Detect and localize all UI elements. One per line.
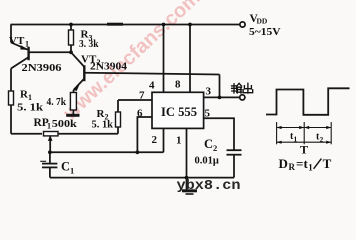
svg-text:VT: VT bbox=[9, 35, 25, 47]
label RP1 bbox=[34, 117, 52, 131]
wire pin 6 bbox=[137, 117, 152, 152]
svg-text:1: 1 bbox=[25, 40, 29, 49]
svg-text:=: = bbox=[296, 156, 303, 171]
wire VT1 base bbox=[29, 51, 71, 53]
dimension arrow t2 bbox=[304, 126, 331, 129]
node dot output bbox=[218, 96, 222, 100]
capacitor C1 bbox=[40, 152, 57, 177]
svg-text:2: 2 bbox=[213, 143, 217, 153]
svg-text:3. 3k: 3. 3k bbox=[79, 39, 99, 50]
svg-text:D: D bbox=[279, 156, 288, 171]
svg-text:C: C bbox=[204, 137, 213, 151]
wire pin 4 drop bbox=[163, 25, 165, 93]
transistor VT2 2N3904 bbox=[71, 52, 84, 92]
svg-text:2N3904: 2N3904 bbox=[90, 62, 128, 73]
dimension arrow t1 bbox=[277, 126, 305, 129]
potentiometer RP1 500k bbox=[44, 132, 59, 153]
svg-text:3: 3 bbox=[206, 86, 212, 98]
node dot rail pin8 bbox=[188, 23, 192, 27]
terminal VDD circle bbox=[240, 22, 245, 27]
node dot pin6 bus bbox=[136, 150, 140, 154]
wire rail thick segment bbox=[107, 23, 123, 26]
wire R1 to pot bbox=[11, 133, 42, 135]
node dot wiper bus bbox=[48, 150, 52, 154]
svg-text:5. 1k: 5. 1k bbox=[17, 103, 43, 114]
node dot base bbox=[69, 50, 73, 54]
dimension tick 2 bbox=[303, 122, 305, 144]
label t2 bbox=[316, 132, 324, 145]
label R2 bbox=[97, 108, 109, 122]
label t1 bbox=[290, 131, 298, 144]
svg-text:C: C bbox=[61, 160, 70, 174]
wire pin 7 bbox=[118, 99, 152, 101]
label C1 bbox=[61, 160, 74, 176]
op-amp IC 555 box bbox=[152, 92, 204, 128]
node dot rail R3 bbox=[69, 23, 73, 27]
resistor R2 bbox=[116, 100, 121, 134]
wire pin 3 output bbox=[204, 96, 240, 98]
wire top VDD rail bbox=[11, 24, 241, 26]
svg-text:5. 1k: 5. 1k bbox=[92, 120, 114, 131]
svg-text:500k: 500k bbox=[52, 119, 77, 130]
formula DR = t1/T bbox=[279, 156, 332, 173]
wire collector to output node bbox=[219, 75, 221, 98]
svg-text:1: 1 bbox=[70, 166, 74, 176]
label R3 bbox=[81, 29, 93, 43]
svg-text:1: 1 bbox=[28, 93, 32, 102]
wire trigger bus bbox=[50, 151, 164, 153]
svg-text:T: T bbox=[300, 143, 308, 157]
svg-text:4. 7k: 4. 7k bbox=[47, 97, 67, 108]
svg-text:ybx8.cn: ybx8.cn bbox=[177, 179, 241, 194]
svg-text:7: 7 bbox=[139, 89, 145, 101]
label R1 bbox=[20, 89, 32, 103]
svg-text:4: 4 bbox=[149, 80, 155, 92]
svg-text:2: 2 bbox=[152, 134, 158, 146]
svg-text:IC 555: IC 555 bbox=[161, 104, 197, 119]
svg-text:T: T bbox=[323, 156, 332, 171]
dimension tick 1 bbox=[276, 122, 278, 144]
svg-text:1: 1 bbox=[176, 135, 182, 147]
resistor R1 bbox=[9, 69, 14, 134]
resistor 4.7k bbox=[70, 93, 76, 115]
svg-text:R: R bbox=[289, 162, 296, 172]
ground under 4.7k bbox=[66, 114, 79, 117]
label C2 bbox=[204, 137, 217, 153]
node dot pin1 ground bbox=[185, 176, 189, 180]
dimension tick 3 bbox=[330, 122, 332, 144]
label VT2 bbox=[81, 54, 101, 68]
capacitor C2 bbox=[227, 150, 242, 177]
label VDD bbox=[249, 13, 281, 38]
svg-text:0.01μ: 0.01μ bbox=[195, 156, 219, 167]
wire pot to R2 bbox=[59, 133, 118, 135]
wire pin 1 bbox=[186, 128, 188, 191]
label VT1 bbox=[9, 35, 29, 49]
label shuchu output bbox=[232, 83, 253, 93]
svg-text:1: 1 bbox=[308, 162, 313, 172]
svg-text:DD: DD bbox=[257, 16, 268, 25]
wire ground bus bbox=[50, 177, 234, 179]
waveform square wave bbox=[266, 88, 350, 115]
svg-text:8: 8 bbox=[175, 79, 181, 91]
svg-text:2N3906: 2N3906 bbox=[22, 63, 62, 74]
wire pin 8 drop bbox=[189, 25, 191, 93]
transistor VT1 2N3906 bbox=[11, 25, 29, 69]
wire pin 5 bbox=[204, 118, 234, 150]
svg-text:1: 1 bbox=[47, 122, 51, 131]
resistor R3 bbox=[69, 25, 74, 53]
svg-text:5~15V: 5~15V bbox=[249, 27, 281, 38]
wire VT2 collector bus bbox=[84, 73, 219, 75]
ground symbol pin1 bbox=[182, 191, 197, 194]
dimension arrow T bbox=[277, 141, 332, 144]
terminal output circle bbox=[240, 95, 245, 100]
wire pin 2 bbox=[163, 128, 165, 152]
node dot rail pin4 bbox=[162, 23, 166, 27]
